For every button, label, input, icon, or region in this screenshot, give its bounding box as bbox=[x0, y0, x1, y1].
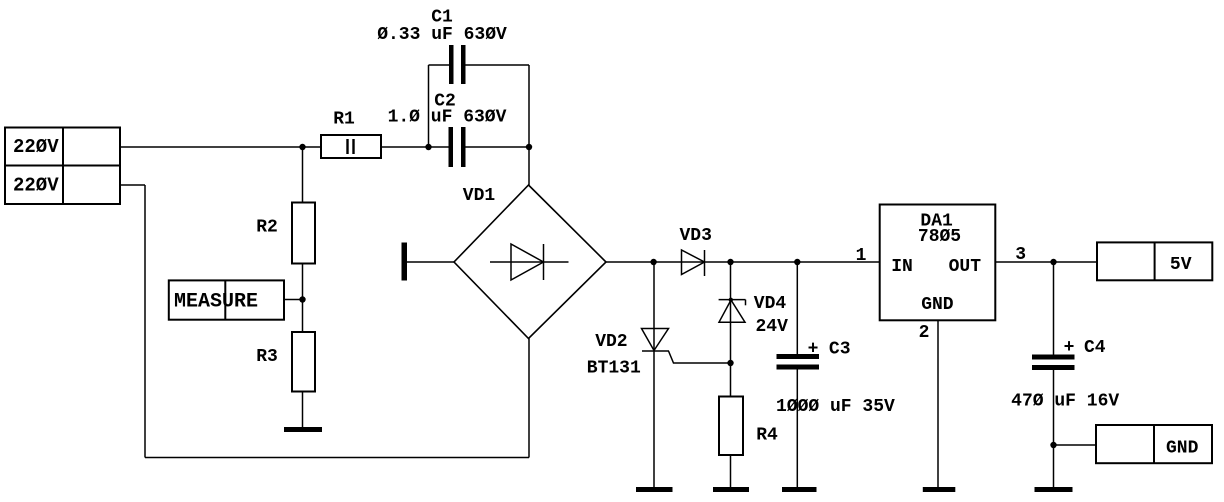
svg-text:1: 1 bbox=[856, 246, 867, 266]
capacitor C2 bbox=[449, 127, 466, 167]
wire VD2 to ground bbox=[653, 351, 655, 487]
svg-text:+: + bbox=[1064, 338, 1075, 358]
node junction VD4 branch bbox=[727, 259, 733, 265]
zener diode VD4 bbox=[719, 300, 746, 323]
wire DA1 out to 5V bbox=[995, 261, 1097, 263]
wire DA1 gnd pin bbox=[937, 320, 939, 487]
diode VD3 bbox=[682, 250, 705, 276]
wire C3 branch vertical bbox=[796, 262, 798, 354]
wire to GND terminal bbox=[1054, 444, 1097, 446]
wire bridge bottom vertical bbox=[528, 339, 530, 458]
wire C1 right vertical down to bridge top bbox=[528, 65, 530, 185]
svg-text:2: 2 bbox=[919, 323, 930, 343]
resistor R3 bbox=[292, 332, 315, 392]
wire 220V bottom row stub bbox=[120, 184, 145, 186]
svg-text:R1: R1 bbox=[333, 110, 355, 130]
resistor R2 bbox=[292, 203, 315, 264]
terminal block MEASURE bbox=[169, 280, 284, 319]
wire top row to R1 bbox=[120, 146, 321, 148]
svg-text:R4: R4 bbox=[756, 426, 778, 446]
capacitor C1 bbox=[449, 45, 466, 84]
node junction C4 branch bbox=[1050, 259, 1056, 265]
node junction gate bbox=[727, 360, 733, 366]
svg-text:VD4: VD4 bbox=[754, 294, 787, 314]
node junction C3 branch bbox=[794, 259, 800, 265]
svg-text:1.Ø uF 63ØV: 1.Ø uF 63ØV bbox=[388, 108, 507, 128]
svg-text:Ø.33 uF 63ØV: Ø.33 uF 63ØV bbox=[377, 25, 507, 45]
node junction MEASURE bbox=[299, 296, 305, 302]
wire stub to bridge bbox=[407, 261, 454, 263]
wire C1 left horizontal bbox=[429, 64, 450, 66]
svg-text:MEASURE: MEASURE bbox=[174, 290, 258, 313]
wire C1 left branch vertical bbox=[428, 65, 430, 147]
svg-text:22ØV: 22ØV bbox=[13, 175, 59, 197]
capacitor C3 bbox=[777, 354, 820, 370]
wire R4 to ground bbox=[730, 455, 732, 487]
wire C1 right horizontal bbox=[466, 64, 530, 66]
svg-text:VD1: VD1 bbox=[463, 186, 496, 206]
capacitor C4 bbox=[1032, 355, 1075, 371]
svg-text:22ØV: 22ØV bbox=[13, 136, 59, 158]
wire C4 to ground bbox=[1053, 370, 1055, 487]
node junction at R2 branch bbox=[299, 144, 305, 150]
node junction GND terminal bbox=[1050, 442, 1056, 448]
ground under R4 bbox=[713, 487, 749, 492]
wire left vertical down bbox=[144, 185, 146, 458]
wire C3 to ground bbox=[796, 370, 798, 488]
svg-text:VD3: VD3 bbox=[679, 226, 711, 246]
svg-text:OUT: OUT bbox=[949, 257, 982, 277]
svg-text:5V: 5V bbox=[1170, 255, 1192, 275]
wire R1 to C2 bbox=[381, 146, 449, 148]
resistor R4 bbox=[719, 397, 743, 456]
wire R3 to ground bbox=[302, 392, 304, 428]
wire VD2 branch vertical bbox=[653, 262, 655, 351]
svg-text:R3: R3 bbox=[256, 347, 278, 367]
ground under C3 bbox=[782, 487, 817, 492]
wire R2 to R3 bbox=[302, 264, 304, 333]
svg-text:78Ø5: 78Ø5 bbox=[918, 227, 961, 247]
svg-text:47Ø uF 16V: 47Ø uF 16V bbox=[1011, 391, 1119, 411]
svg-text:1ØØØ uF 35V: 1ØØØ uF 35V bbox=[776, 397, 895, 417]
svg-text:IN: IN bbox=[891, 257, 913, 277]
ground under C4 bbox=[1035, 487, 1073, 492]
svg-text:BT131: BT131 bbox=[587, 358, 641, 378]
terminal block 5V bbox=[1097, 242, 1212, 280]
terminal block GND bbox=[1096, 425, 1212, 463]
terminal stub left of bridge bbox=[402, 243, 408, 281]
wire bottom horizontal bbox=[145, 457, 529, 459]
wire VD2 gate bbox=[669, 351, 731, 363]
wire bridge output to DA1 bbox=[606, 261, 880, 263]
wire C4 branch vertical bbox=[1053, 262, 1055, 355]
node junction right of C2 bbox=[526, 144, 532, 150]
resistor R1 bbox=[321, 135, 381, 158]
wire R2 branch down bbox=[302, 147, 304, 203]
svg-text:R2: R2 bbox=[256, 218, 278, 238]
node dot VD4 apex bbox=[729, 298, 733, 302]
node junction C1 branch bbox=[425, 144, 431, 150]
regulator DA1 box bbox=[880, 205, 996, 321]
svg-text:C3: C3 bbox=[829, 340, 851, 360]
wire MEASURE to node bbox=[284, 299, 303, 301]
ground under DA1 bbox=[923, 487, 956, 492]
ground under VD2 bbox=[636, 487, 673, 492]
svg-text:GND: GND bbox=[921, 295, 954, 315]
thyristor VD2 bbox=[642, 329, 670, 352]
svg-text:GND: GND bbox=[1166, 439, 1199, 459]
svg-text:+: + bbox=[808, 340, 819, 360]
terminal block X1 220V input bbox=[5, 128, 120, 205]
wire C2 to node bbox=[466, 146, 530, 148]
wire VD4 branch vertical bbox=[730, 262, 732, 397]
svg-text:C4: C4 bbox=[1084, 338, 1106, 358]
svg-text:VD2: VD2 bbox=[595, 332, 627, 352]
bridge rectifier VD1 bbox=[454, 185, 606, 339]
ground under R3 bbox=[284, 427, 322, 432]
node junction VD2 branch bbox=[650, 259, 656, 265]
svg-text:24V: 24V bbox=[755, 317, 788, 337]
